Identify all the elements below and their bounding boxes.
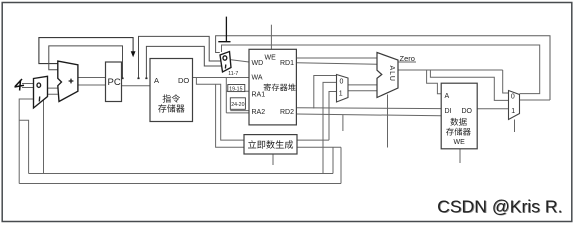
wire: immgen output to ALU mux riser: [297, 92, 337, 141]
writeback mux: [509, 91, 520, 120]
wire: RD1 pair to ALU: [296, 58, 377, 64]
wire: WD mux select from top (dark): [218, 17, 230, 42]
wire: top line A (writeback to WD mux): [216, 36, 550, 100]
svg-text:Zero: Zero: [400, 54, 415, 63]
wire: instr bits to immgen port2: [216, 84, 244, 147]
wire feet ticks: [121, 77, 147, 79]
wire: RA1: [226, 90, 249, 92]
adder: [58, 61, 78, 101]
wire: instr bits riser to RA1/RA2: [225, 78, 227, 113]
wire: ALU result to WB mux in0: [398, 70, 509, 93]
svg-text:0: 0: [340, 79, 344, 86]
wire: data memory WE stub: [459, 149, 461, 163]
svg-text:DO: DO: [462, 108, 473, 115]
svg-text:ALU: ALU: [388, 66, 395, 82]
wire: pcmux bottom vertical: [43, 100, 45, 174]
svg-text:A: A: [154, 76, 159, 85]
svg-text:CSDN @Kris R.: CSDN @Kris R.: [438, 197, 563, 217]
wire: ALU mux out pair to ALU: [348, 85, 377, 91]
svg-text:RA1: RA1: [252, 92, 266, 99]
svg-text:PC: PC: [108, 77, 121, 88]
wire: WB mux select stub: [514, 120, 516, 133]
pc source mux (left): [34, 76, 48, 108]
wire: left outer loop (adder feedback): [39, 38, 133, 64]
data memory: [441, 83, 477, 149]
wire: instr bits to immgen port1: [196, 78, 244, 141]
svg-text:A: A: [445, 93, 450, 100]
wire: riser to ALU mux mid: [323, 82, 337, 173]
wire: WD mux output to WD: [231, 60, 249, 62]
register file: [249, 49, 296, 125]
svg-text:WD: WD: [252, 60, 264, 67]
wire: mid outer loop (PC+4 to WD mux): [139, 36, 221, 78]
wire: bottom feedback riser into pcmux input1: [19, 99, 34, 184]
svg-text:24-20: 24-20: [231, 102, 244, 108]
wire: Zero output underline: [399, 61, 416, 63]
wire: RA2: [226, 111, 249, 113]
wire: left inner loop: [49, 46, 123, 78]
bitfield box 19-15: [228, 85, 245, 92]
WD mux (small, tilted): [220, 52, 231, 73]
PC register: [106, 62, 122, 102]
ALU source mux: [337, 75, 349, 103]
svg-text:DO: DO: [178, 76, 189, 85]
wire: top line B: [222, 45, 540, 94]
svg-text:WE: WE: [265, 55, 277, 62]
wire: register WE from top: [270, 25, 272, 50]
svg-text:0: 0: [511, 93, 515, 100]
svg-text:1: 1: [511, 108, 515, 115]
svg-text:11-7: 11-7: [228, 71, 238, 77]
wire: adder to PC: [78, 78, 106, 86]
instruction memory: [150, 59, 193, 122]
wire: pcmux out to adder: [48, 88, 58, 94]
wire: data memory DO to WB mux in1: [477, 108, 508, 110]
svg-text:WA: WA: [252, 75, 263, 82]
wire: 4-to-mux pair: [22, 84, 34, 88]
svg-text:1: 1: [339, 91, 343, 98]
wire: ALU result branch to data memory A: [427, 70, 442, 94]
wire: PC to instruction memory A: [122, 85, 151, 87]
wire: ALU control stub: [387, 95, 389, 148]
wire: RD2 riser to ALU mux in0: [314, 76, 337, 109]
svg-text:RD2: RD2: [280, 109, 294, 116]
wire: WB mux output: [520, 99, 551, 101]
wire: bottom long line 2: [19, 183, 341, 185]
hand-drawn 4: [15, 79, 25, 91]
svg-text:19-15: 19-15: [229, 86, 242, 92]
wire: instruction DO bus to WA: [193, 77, 250, 79]
ALU: [377, 53, 398, 98]
wire: mid inner loop: [146, 46, 221, 78]
svg-text:RD1: RD1: [280, 60, 294, 67]
wire: immgen port2 line to bottom feedback: [297, 147, 341, 183]
wire: RD2 pair to data memory DI: [296, 108, 441, 116]
svg-text:WE: WE: [454, 139, 466, 146]
wire: line above data memory to WB mux: [430, 70, 508, 100]
bitfield box 24-20: [230, 98, 245, 110]
wire: bottom feedback riser 2: [19, 120, 28, 173]
wire: bottom long line 1: [29, 173, 333, 175]
svg-text:RA2: RA2: [252, 109, 266, 116]
svg-text:DI: DI: [445, 108, 452, 115]
immediate generator: [244, 135, 297, 154]
wire: immgen select stub: [272, 154, 274, 165]
arrowhead on left outer loop: [131, 51, 136, 57]
wire: ALU mux stub: [342, 115, 344, 131]
